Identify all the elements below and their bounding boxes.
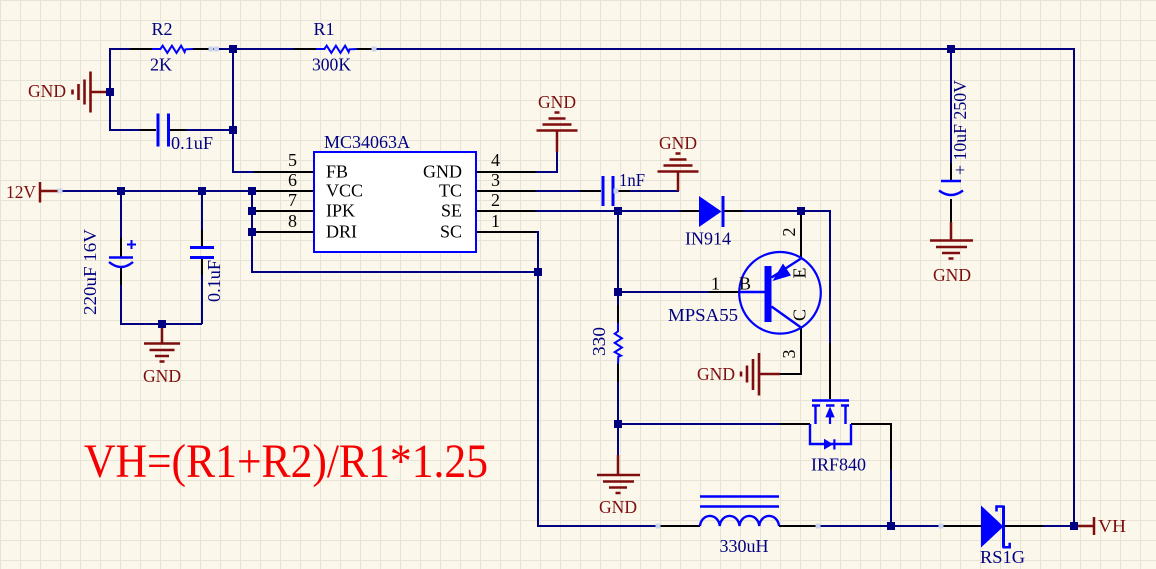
svg-text:VCC: VCC [326, 181, 363, 201]
svg-text:220uF 16V: 220uF 16V [80, 229, 100, 315]
svg-text:IN914: IN914 [685, 229, 731, 249]
node junction 202,191 [198, 187, 206, 195]
svg-text:DRI: DRI [326, 222, 357, 242]
svg-text:GND: GND [423, 162, 462, 182]
pin IN914 leads [680, 210, 743, 212]
svg-text:1: 1 [491, 211, 500, 231]
wire SE vertical x=618 down to gate row [617, 211, 619, 305]
svg-text:3: 3 [779, 350, 799, 359]
svg-text:IPK: IPK [326, 201, 355, 221]
wire 220uF top lead [120, 191, 122, 238]
pin U1 pin6 VCC [254, 190, 314, 192]
pin R3 330 leads [617, 305, 619, 382]
wire top row R2 left lead segment [109, 48, 130, 50]
ground GND1 above pin4 flipped earth [537, 92, 578, 152]
wire top row from R1 to top-right corner and down right side [376, 49, 1074, 527]
svg-text:E: E [790, 268, 810, 279]
wire 330 resistor bottom to gate row [618, 382, 780, 424]
svg-text:RS1G: RS1G [980, 547, 1025, 567]
svg-text:GND: GND [28, 81, 66, 101]
node junction 618,424 [614, 420, 622, 428]
pin U1 pin2 SE [476, 210, 536, 212]
diode D2 RS1G schottky [980, 506, 1025, 568]
node junction 538,272 [534, 268, 542, 276]
node junction 801,211 [797, 207, 805, 215]
wire 0.1uF row right to junction [186, 129, 234, 131]
svg-text:MPSA55: MPSA55 [668, 305, 738, 325]
wire MOSFET source down [890, 470, 892, 526]
pin MOSFET gate lead [780, 423, 810, 425]
pin 0.1uF top leads [140, 129, 186, 131]
svg-text:1nF: 1nF [619, 170, 645, 190]
svg-text:C: C [790, 309, 810, 321]
wire SC down to bottom row [536, 232, 660, 526]
svg-text:+ 10uF 250V: + 10uF 250V [950, 80, 970, 175]
ground GND3 transistor collector power ground [697, 353, 780, 396]
svg-text:R1: R1 [313, 19, 334, 39]
svg-text:GND: GND [659, 133, 697, 153]
node junction 233,49 [229, 45, 237, 53]
svg-text:VH=(R1+R2)/R1*1.25: VH=(R1+R2)/R1*1.25 [84, 435, 488, 488]
node junction 233,130 [229, 126, 237, 134]
svg-text:MC34063A: MC34063A [324, 132, 410, 152]
svg-text:5: 5 [288, 150, 297, 170]
resistor R1 [312, 19, 357, 75]
pin 0.1uF2 leads [201, 230, 203, 275]
svg-text:GND: GND [697, 364, 735, 384]
wire 0.1uF row left [110, 129, 140, 131]
svg-text:7: 7 [288, 190, 297, 210]
node junction 121,191 [117, 187, 125, 195]
svg-text:1: 1 [711, 274, 720, 294]
wire IN914 to drain corner [743, 211, 830, 343]
wire IPK tap [252, 210, 254, 212]
svg-text:2K: 2K [150, 55, 172, 75]
svg-text:VH: VH [1098, 516, 1126, 536]
svg-text:330: 330 [589, 327, 609, 356]
svg-text:GND: GND [599, 497, 637, 517]
pin 1nF leads [580, 190, 630, 192]
pin U1 pin3 TC [476, 190, 536, 192]
svg-text:IRF840: IRF840 [811, 455, 866, 475]
pin hotspot marks [58, 47, 944, 529]
node junction 252,211 [248, 207, 256, 215]
resistor R2 [150, 19, 193, 75]
ground GND5 below 10uF earth [930, 222, 973, 285]
pin inductor leads [660, 525, 819, 527]
wire pin2 SE row to IN914 [536, 210, 680, 212]
wire base row to transistor [618, 291, 709, 293]
pin MOSFET drain lead [829, 343, 831, 399]
svg-text:GND: GND [933, 265, 971, 285]
pin U1 pin7 IPK [254, 210, 314, 212]
power port VH [1076, 516, 1126, 536]
svg-text:8: 8 [288, 211, 297, 231]
ground GND4 below gate row earth [597, 455, 640, 517]
capacitor C2 220uF 16V polarized [80, 229, 136, 315]
svg-text:0.1uF: 0.1uF [171, 133, 213, 153]
wire top row between R2 and R1 [212, 48, 294, 50]
node junction 110,92 [106, 88, 114, 96]
ground GND0 top-left power ground [28, 72, 110, 113]
wire bottom row inductor right to RS1G [819, 525, 941, 527]
node junction 252,191 [248, 187, 256, 195]
pin R1 leads [294, 48, 376, 50]
node junction 891,526 [887, 522, 895, 530]
svg-text:GND: GND [538, 92, 576, 112]
ground GND2 above 1nF flipped earth [658, 133, 699, 191]
resistor R3 330 vertical [589, 323, 622, 364]
svg-text:GND: GND [143, 366, 181, 386]
capacitor C1 0.1uF top [158, 114, 213, 154]
svg-text:R2: R2 [151, 19, 172, 39]
pin R2 leads [130, 48, 212, 50]
wire 1nF to GND2 [630, 172, 678, 191]
node junction 252,232 [248, 228, 256, 236]
svg-text:3: 3 [491, 170, 500, 190]
pin U1 pin5 FB [254, 171, 314, 173]
svg-text:4: 4 [491, 150, 500, 170]
power port 12V [6, 182, 60, 203]
pin Q1 base lead [709, 291, 739, 293]
svg-text:300K: 300K [312, 55, 351, 75]
capacitor C4 1nF [603, 170, 645, 206]
svg-text:FB: FB [326, 162, 348, 182]
svg-text:330uH: 330uH [720, 536, 769, 556]
ground GND6 below C2/C3 earth ground [143, 324, 181, 386]
capacitor C5 10uF 250V polarized [939, 80, 970, 195]
svg-text:SE: SE [441, 201, 462, 221]
wire 10uF bottom lead [950, 199, 952, 222]
wire top net from R2 left corner down to cap row [109, 48, 111, 131]
wire vertical x=233 from top row to FB row [233, 48, 254, 172]
wire GND4 stem upper [617, 424, 619, 456]
svg-text:SC: SC [440, 222, 462, 242]
node junction 618,292 [614, 288, 622, 296]
wire 12V row [57, 190, 254, 192]
capacitor C3 0.1uF vertical [190, 248, 224, 303]
node junction 618,211 [614, 207, 622, 215]
svg-text:12V: 12V [6, 182, 36, 202]
pin 10uF leads [950, 163, 952, 222]
node junction 162,324 [158, 320, 166, 328]
pin MOSFET source lead [851, 424, 891, 470]
svg-text:6: 6 [288, 170, 297, 190]
pin U1 pin4 GND [476, 171, 536, 173]
pin U1 pin8 DRI [254, 231, 314, 233]
diode D1 IN914 [685, 196, 731, 249]
pin U1 pin1 SC [476, 231, 536, 233]
pin Q1 emitter lead [800, 211, 802, 258]
pin RS1G leads [941, 525, 1043, 527]
svg-text:0.1uF: 0.1uF [204, 260, 224, 302]
wire pin4 to GND1 [536, 151, 557, 172]
wire pin3 to 1nF [536, 190, 580, 192]
svg-text:2: 2 [779, 228, 799, 237]
wire 0.1uF2 top lead [201, 191, 203, 230]
svg-text:2: 2 [491, 190, 500, 210]
wire 0.1uF2 bottom lead [201, 275, 203, 324]
node junction 951,49 [947, 45, 955, 53]
svg-text:B: B [739, 274, 751, 294]
pin Q1 collector lead [780, 328, 801, 374]
inductor L1 330uH [700, 497, 779, 557]
transistor Q2 IRF840 MOSFET [810, 401, 866, 475]
wire RS1G to VH junction [1043, 525, 1075, 527]
pin 220uF leads [120, 238, 122, 285]
wire 220uF bottom lead to gnd junction row [121, 285, 202, 324]
wire DRI tap [252, 231, 254, 233]
wire vertical x=252 VCC-IPK-DRI tie [252, 191, 538, 272]
node junction 1074,526 [1070, 522, 1078, 530]
op-amp U1 MC34063A body [288, 132, 500, 252]
transistor Q1 MPSA55 [668, 228, 821, 359]
wire 10uF top lead [950, 49, 952, 163]
svg-text:TC: TC [439, 181, 462, 201]
